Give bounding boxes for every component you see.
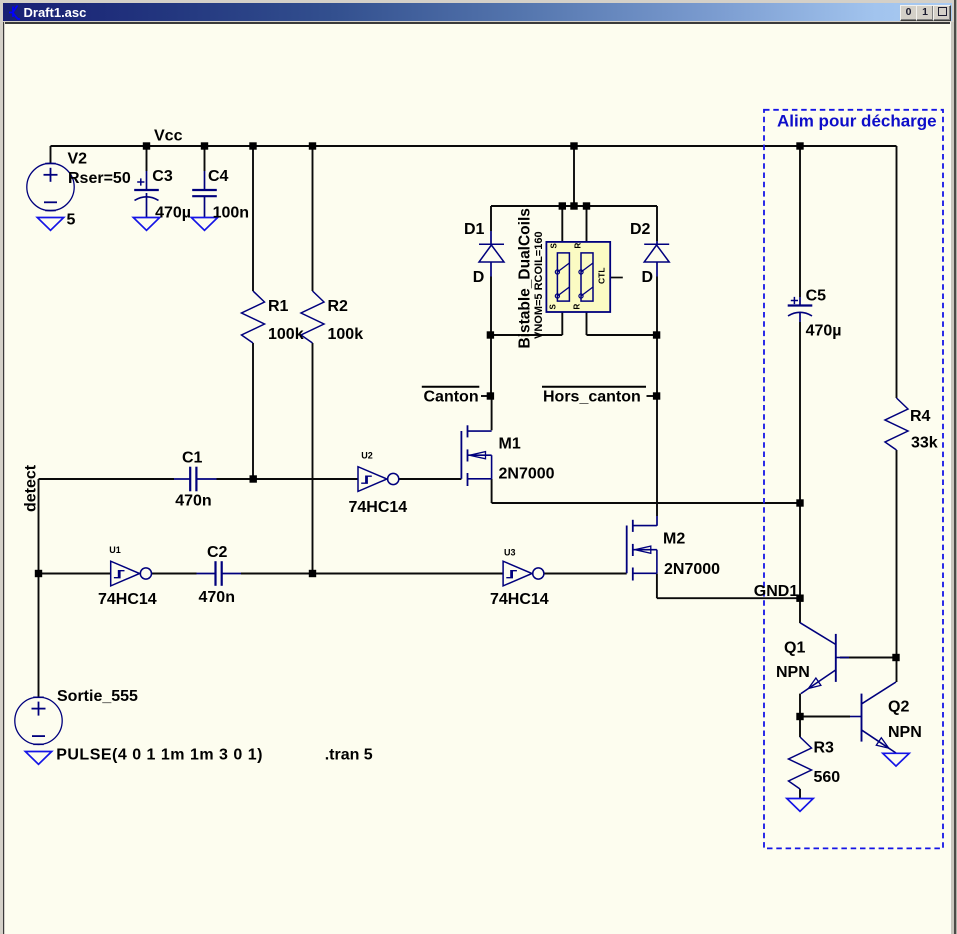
svg-text:Sortie_555: Sortie_555 — [57, 688, 138, 705]
svg-text:Canton: Canton — [424, 389, 479, 406]
svg-text:D: D — [642, 269, 654, 286]
svg-text:C1: C1 — [182, 450, 203, 467]
svg-text:470µ: 470µ — [806, 323, 842, 340]
svg-text:Hors_canton: Hors_canton — [543, 389, 641, 406]
svg-text:R: R — [573, 304, 582, 310]
svg-text:470n: 470n — [199, 589, 235, 606]
svg-text:.tran 5: .tran 5 — [325, 747, 373, 764]
svg-text:CTL: CTL — [597, 267, 607, 284]
svg-text:Rser=50: Rser=50 — [68, 170, 131, 187]
svg-text:5: 5 — [67, 212, 76, 229]
svg-text:470n: 470n — [175, 493, 211, 510]
svg-text:C4: C4 — [208, 168, 229, 185]
svg-text:74HC14: 74HC14 — [349, 499, 408, 516]
svg-text:NPN: NPN — [888, 724, 922, 741]
svg-text:C5: C5 — [806, 288, 827, 305]
svg-text:Bistable_DualCoils: Bistable_DualCoils — [517, 208, 534, 348]
svg-text:74HC14: 74HC14 — [490, 591, 549, 608]
svg-text:NPN: NPN — [776, 664, 810, 681]
svg-text:VNOM=5 RCOIL=160: VNOM=5 RCOIL=160 — [533, 231, 545, 339]
svg-text:74HC14: 74HC14 — [98, 591, 157, 608]
svg-text:M2: M2 — [663, 531, 685, 548]
svg-text:M1: M1 — [499, 436, 521, 453]
svg-text:GND1: GND1 — [754, 583, 799, 600]
svg-text:D1: D1 — [464, 221, 485, 238]
svg-text:560: 560 — [814, 769, 841, 786]
svg-text:Q1: Q1 — [784, 640, 805, 657]
svg-text:100k: 100k — [268, 326, 304, 343]
svg-text:S: S — [549, 304, 558, 310]
svg-text:R2: R2 — [328, 298, 349, 315]
svg-text:Alim pour décharge: Alim pour décharge — [777, 112, 937, 131]
svg-text:100k: 100k — [328, 326, 364, 343]
svg-text:100n: 100n — [213, 205, 249, 222]
svg-text:2N7000: 2N7000 — [664, 561, 720, 578]
svg-text:D: D — [473, 269, 485, 286]
svg-text:33k: 33k — [911, 435, 938, 452]
svg-text:2N7000: 2N7000 — [499, 466, 555, 483]
svg-text:R: R — [574, 243, 583, 249]
svg-text:detect: detect — [23, 464, 40, 512]
svg-text:V2: V2 — [68, 151, 88, 168]
svg-text:C2: C2 — [207, 544, 228, 561]
svg-text:R4: R4 — [910, 408, 931, 425]
svg-text:R1: R1 — [268, 298, 289, 315]
svg-text:Q2: Q2 — [888, 699, 909, 716]
svg-text:PULSE(4 0 1 1m 1m 3 0 1): PULSE(4 0 1 1m 1m 3 0 1) — [56, 747, 263, 764]
svg-text:U1: U1 — [109, 545, 121, 555]
svg-text:D2: D2 — [630, 221, 651, 238]
svg-text:470µ: 470µ — [155, 205, 191, 222]
svg-text:S: S — [550, 243, 559, 249]
svg-text:R3: R3 — [814, 740, 835, 757]
svg-text:U2: U2 — [361, 451, 373, 461]
svg-text:U3: U3 — [504, 548, 516, 558]
svg-text:C3: C3 — [152, 168, 173, 185]
svg-text:Vcc: Vcc — [154, 128, 183, 145]
